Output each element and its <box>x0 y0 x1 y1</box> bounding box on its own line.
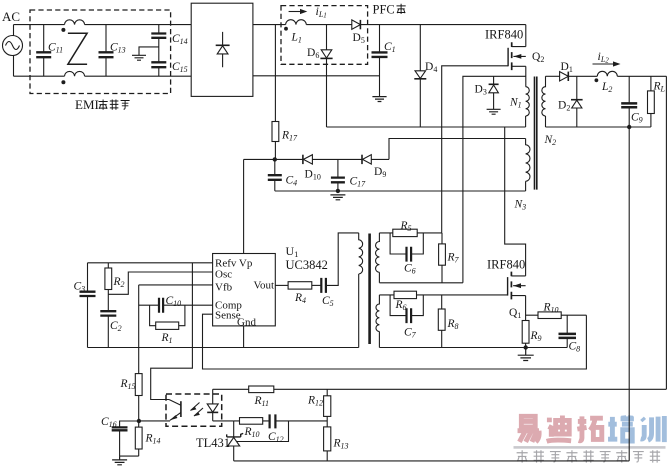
svg-text:R12: R12 <box>307 395 323 408</box>
transformer T2 secondary A (Q2 drive) <box>376 233 380 283</box>
svg-text:RL: RL <box>653 81 666 94</box>
svg-text:C14: C14 <box>172 33 188 46</box>
svg-text:L1: L1 <box>291 32 302 45</box>
svg-text:R7: R7 <box>447 252 460 265</box>
capacitor C16 <box>112 421 139 456</box>
wire feedback bottom rail <box>234 460 630 462</box>
wire Comp pin with C10 <box>139 304 213 306</box>
optocoupler dashed box <box>166 394 222 426</box>
wire secondary B top (gate drive Q1) <box>379 294 507 296</box>
wire N3 top to D9 <box>389 139 526 160</box>
wire Vp feed to U1 <box>243 159 245 253</box>
ground (power stage) <box>518 348 534 361</box>
choke polarity dot top <box>61 28 65 32</box>
wire D1 to L2 <box>568 75 597 77</box>
svg-text:Gnd: Gnd <box>237 317 256 329</box>
resistor RL <box>648 76 655 127</box>
svg-text:C4: C4 <box>286 175 298 188</box>
wire Osc pin to R2/C2 node <box>108 272 212 294</box>
resistor R9 <box>522 321 529 348</box>
wire Gnd pin <box>243 326 245 348</box>
svg-text:C8: C8 <box>569 341 581 354</box>
resistor R14 <box>120 421 143 456</box>
wire N2 bottom output return <box>546 126 651 128</box>
wire D5 to Q2 drain (PFC output rail) <box>360 24 525 26</box>
svg-text:R15: R15 <box>120 378 136 391</box>
wire top-left rail <box>14 24 192 26</box>
iL2 current arrow <box>593 61 621 66</box>
capacitor C5 <box>321 278 326 293</box>
svg-text:R17: R17 <box>281 130 298 143</box>
svg-text:iL2: iL2 <box>598 49 610 65</box>
diode D2 <box>571 76 583 127</box>
svg-text:D4: D4 <box>425 61 437 74</box>
wire N1 bottom return line <box>327 126 526 128</box>
transformer T1 core <box>535 77 537 190</box>
common-mode choke L (bottom winding) <box>65 71 85 76</box>
svg-text:Osc: Osc <box>215 269 232 281</box>
watermark small gray text <box>517 450 661 462</box>
junction opto emitter node <box>137 419 141 423</box>
capacitor C14 <box>151 25 166 38</box>
wire C5 to T2 primary <box>326 233 359 286</box>
svg-text:R10: R10 <box>543 302 559 315</box>
svg-text:D5: D5 <box>353 32 365 45</box>
diode D3 <box>489 76 499 109</box>
svg-text:C1: C1 <box>384 41 396 54</box>
resistor R13 <box>324 427 331 461</box>
svg-text:R8: R8 <box>447 318 459 331</box>
wire Refv Vp pin <box>88 262 213 264</box>
capacitor C17 <box>331 159 345 191</box>
svg-text:IRF840: IRF840 <box>487 258 525 272</box>
resistor R12 <box>324 389 331 427</box>
common-mode choke L (top winding) <box>65 20 85 25</box>
svg-text:N3: N3 <box>514 199 527 212</box>
resistor R6 <box>394 291 417 298</box>
capacitor C2 <box>100 311 116 347</box>
svg-text:C15: C15 <box>172 61 188 74</box>
MOSFET Q1 (IRF840) <box>508 272 526 321</box>
svg-text:D2: D2 <box>558 100 570 113</box>
svg-text:L2: L2 <box>601 81 612 94</box>
svg-text:UC3842: UC3842 <box>286 258 328 272</box>
svg-text:EMI: EMI <box>75 97 99 112</box>
capacitor C7 loop <box>390 295 423 323</box>
svg-text:R10: R10 <box>244 426 260 439</box>
wire Vout pin <box>275 284 288 286</box>
transformer T1 winding N3 <box>526 139 530 192</box>
svg-text:R5: R5 <box>400 220 412 233</box>
svg-text:Q2: Q2 <box>532 51 544 64</box>
capacitor C8 <box>559 315 577 347</box>
resistor R15 <box>135 374 142 396</box>
ground (D3 clamp) <box>487 109 501 114</box>
transformer T1 winding N1 <box>526 87 530 127</box>
svg-text:C5: C5 <box>322 295 334 308</box>
svg-text:IRF840: IRF840 <box>485 28 523 42</box>
wire analog ground rail <box>88 347 359 349</box>
wire N3 bottom to aux ground rail <box>275 190 526 192</box>
wire Vfb pin <box>139 284 213 286</box>
svg-text:R6: R6 <box>395 299 407 312</box>
EMI filter dashed box <box>30 10 171 94</box>
resistor R7 <box>439 233 446 283</box>
wire EMI ground tap <box>139 47 159 55</box>
svg-text:C9: C9 <box>631 112 643 125</box>
choke Z core symbol <box>68 33 87 64</box>
wire bottom-left rail <box>14 75 192 77</box>
optocoupler phototransistor <box>139 400 181 421</box>
capacitor C6 loop <box>390 233 423 262</box>
watermark big text <box>518 416 603 442</box>
wire bridge to PFC top rail <box>253 24 286 26</box>
svg-text:Vfb: Vfb <box>215 282 233 294</box>
junction R9 ground <box>524 345 528 349</box>
capacitor C15 <box>151 38 166 76</box>
svg-text:iL1: iL1 <box>316 4 327 20</box>
svg-text:R13: R13 <box>333 438 349 451</box>
svg-text:D6: D6 <box>307 47 319 60</box>
svg-text:N1: N1 <box>509 97 522 110</box>
svg-text:C6: C6 <box>404 263 416 276</box>
svg-text:AC: AC <box>2 9 20 24</box>
diode D9 <box>362 155 371 164</box>
wire Vcc line R17/D10/D9 <box>244 158 389 160</box>
wire LED cathode to TL431 <box>213 420 234 422</box>
resistor R10 (sense filter) <box>526 312 587 319</box>
transformer T2 primary winding <box>359 233 363 348</box>
wire Q2 source to D3 clamp rail <box>463 76 526 282</box>
svg-text:R4: R4 <box>294 292 306 305</box>
svg-text:D1: D1 <box>561 61 573 74</box>
diode D6 <box>320 25 332 127</box>
transformer T2 core <box>368 234 371 345</box>
wire Vref to opto collector <box>151 263 193 400</box>
resistor R2 <box>105 263 112 311</box>
svg-text:C16: C16 <box>101 416 117 429</box>
IC U1 UC3842 box <box>213 254 276 326</box>
resistor R5 <box>393 229 417 236</box>
capacitor C1 <box>372 25 388 97</box>
junction R17/D10/Vp <box>273 157 277 161</box>
wire secondary A top (gate drive Q2) <box>379 232 441 234</box>
transformer T1 winding N2 <box>542 76 546 127</box>
wire Vfb drop to R15 <box>138 285 140 374</box>
svg-text:R2: R2 <box>113 276 125 289</box>
inductor L1 <box>286 20 307 25</box>
wire bridge negative rail <box>253 75 380 77</box>
optocoupler LED <box>207 389 218 421</box>
svg-text:D3: D3 <box>475 84 487 97</box>
diode D1 <box>560 72 569 81</box>
TL431 shunt regulator <box>227 421 244 461</box>
wire N2 top to D1 <box>546 75 560 77</box>
capacitor C12 <box>270 414 328 428</box>
svg-text:Vout: Vout <box>254 280 275 292</box>
L2 polarity dot <box>595 78 599 82</box>
wire Q1 drain feed <box>505 127 526 276</box>
svg-text:R14: R14 <box>145 433 161 446</box>
svg-text:C11: C11 <box>48 42 63 55</box>
capacitor C4 <box>268 159 282 191</box>
junction C17 ground <box>336 189 340 193</box>
svg-text:TL431: TL431 <box>196 436 230 450</box>
svg-text:C3: C3 <box>74 281 86 294</box>
wire secondary A bottom <box>379 282 463 284</box>
svg-text:C17: C17 <box>350 176 367 189</box>
svg-text:U1: U1 <box>286 244 299 259</box>
wire Sense pin <box>203 314 587 369</box>
junction C9 return <box>627 125 631 129</box>
wire output+ feedback drop <box>665 76 667 389</box>
svg-text:C2: C2 <box>110 320 122 333</box>
svg-text:N2: N2 <box>544 134 557 147</box>
capacitor C11 <box>36 25 51 77</box>
wire L2 to output <box>617 75 666 77</box>
bridge rectifier diode symbol <box>216 32 230 67</box>
svg-text:D9: D9 <box>374 166 386 179</box>
optocoupler light arrows <box>190 403 203 417</box>
svg-text:C12: C12 <box>268 431 284 444</box>
capacitor C13 <box>99 25 114 77</box>
svg-text:R11: R11 <box>254 395 269 408</box>
wire Q2 gate <box>442 66 508 233</box>
capacitor C3 <box>80 263 96 348</box>
ground (aux supply) <box>330 195 345 200</box>
resistor R4 <box>288 282 321 289</box>
svg-text:R9: R9 <box>530 330 542 343</box>
resistor R8 <box>438 295 445 348</box>
L1 polarity dot <box>284 27 288 31</box>
capacitor C9 <box>621 76 637 127</box>
svg-text:D10: D10 <box>305 169 321 182</box>
resistor R17 <box>272 25 279 160</box>
wire output return drop <box>628 127 630 461</box>
wire opto feedback top line <box>213 388 667 390</box>
PFC stage dashed box <box>281 6 368 65</box>
ground (C1 / primary ground) <box>372 97 386 102</box>
ground (EMI filter) <box>132 55 146 60</box>
svg-text:PFC: PFC <box>373 3 395 17</box>
wire L1 to D5 <box>306 24 352 26</box>
diode D10 <box>303 155 313 164</box>
AC source V1 <box>3 25 23 77</box>
bridge rectifier box <box>191 3 253 96</box>
svg-text:C10: C10 <box>166 295 182 308</box>
svg-text:Q1: Q1 <box>509 307 521 320</box>
choke polarity dot bottom <box>61 80 65 84</box>
svg-text:C13: C13 <box>110 42 126 55</box>
wire power ground rail <box>379 347 567 349</box>
inductor L2 <box>597 71 617 76</box>
svg-text:C7: C7 <box>404 327 417 340</box>
diode D4 <box>414 25 426 127</box>
capacitor C10 <box>159 298 163 313</box>
resistor R1 parallel loop <box>150 305 185 329</box>
MOSFET Q2 (IRF840) <box>508 25 526 87</box>
transformer T2 secondary B (Q1 drive) <box>376 295 379 348</box>
resistor R10 (TL431 comp) <box>234 418 269 425</box>
iL1 current arrow <box>289 9 308 14</box>
ground (feedback divider) <box>112 456 127 465</box>
svg-text:R1: R1 <box>161 332 173 345</box>
diode D5 <box>352 20 361 29</box>
wire R15 feedback branch <box>138 396 140 422</box>
wire TL431 ref <box>237 421 289 442</box>
watermark underline <box>514 446 666 449</box>
resistor R11 <box>249 386 274 393</box>
